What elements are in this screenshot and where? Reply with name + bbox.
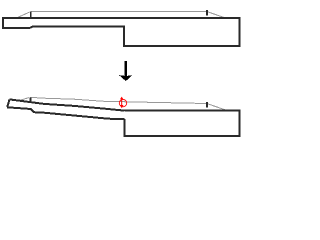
- top beam back top edge (thin): [31, 10, 207, 12]
- bottom deflected beam bottom edge: [7, 107, 124, 119]
- top figure front outline (beam + base block): [3, 18, 239, 46]
- bottom base block outline: [124, 111, 239, 137]
- top beam left tick: [30, 11, 32, 17]
- red deflection circle: [119, 99, 126, 106]
- bottom beam back top edge (thin, tilted): [30, 97, 207, 103]
- top beam left perspective diagonal (thin): [18, 12, 30, 17]
- bottom beam left tick: [30, 97, 32, 101]
- bottom deflected beam top edge: [10, 99, 125, 110]
- top beam right tick: [206, 10, 208, 16]
- bottom beam right perspective diagonal (thin): [207, 104, 228, 111]
- bottom beam right tick: [206, 102, 208, 108]
- downward transform arrow shaft: [124, 61, 127, 76]
- downward transform arrow head: [119, 75, 132, 81]
- top beam right perspective diagonal (thin): [207, 12, 225, 18]
- bottom deflected beam left edge: [7, 99, 9, 107]
- bottom beam left perspective diagonal (thin): [19, 98, 29, 101]
- red deflection double arrow: [120, 97, 124, 109]
